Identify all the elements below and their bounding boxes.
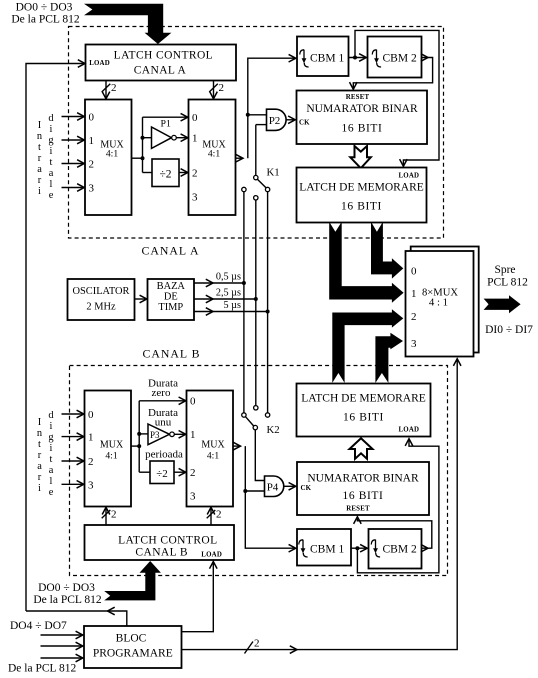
svg-text:r: r <box>38 175 42 186</box>
svg-text:a: a <box>37 164 42 175</box>
svg-text:RESET: RESET <box>346 94 370 101</box>
svg-text:1: 1 <box>89 135 95 147</box>
svg-text:unu: unu <box>155 417 172 429</box>
wire input 1 MUX3 <box>62 436 84 438</box>
wire to P4 bottom input <box>245 490 264 492</box>
svg-text:16 BITI: 16 BITI <box>341 201 382 213</box>
svg-text:CANAL B: CANAL B <box>135 547 188 559</box>
mux MUX4 4:1 (canal B rate select) <box>187 391 234 507</box>
wire input 0 MUX1 <box>62 116 85 118</box>
wire branch to divider A <box>143 172 153 174</box>
svg-text:0: 0 <box>190 396 196 408</box>
svg-text:i: i <box>50 146 53 157</box>
bus arrow 8xMUX output to PCL (thick) <box>484 295 521 313</box>
wire LOAD feed into latch U1 (from bloc programare, far left) <box>26 64 85 612</box>
svg-text:d: d <box>48 410 54 421</box>
wire P4 output to CK (canal B) <box>284 485 296 487</box>
svg-text:÷2: ÷2 <box>159 169 171 181</box>
bus arrow latch A to 8xMUX input 0 (thick) <box>371 222 403 279</box>
svg-text:4:1: 4:1 <box>207 451 219 462</box>
bus arrow latch B to 8xMUX input 3 (thick) <box>375 333 403 383</box>
wire P2 output to CK <box>286 119 295 121</box>
wire select bus latch U2 to MUX4 (2) <box>210 507 212 524</box>
svg-text:a: a <box>37 461 42 472</box>
monostable CBM1 (canal A) <box>297 37 349 77</box>
wire CBM1 B out under to latch B load <box>357 439 439 573</box>
mux 8xMUX 4:1 (output, double box) <box>411 247 479 353</box>
svg-text:CBM 1: CBM 1 <box>310 544 344 556</box>
svg-text:4:1: 4:1 <box>106 149 118 160</box>
svg-text:4:1: 4:1 <box>208 149 220 160</box>
wire branch to divider B <box>139 471 150 473</box>
svg-text:LATCH CONTROL: LATCH CONTROL <box>118 535 217 547</box>
svg-text:i: i <box>38 483 41 494</box>
svg-text:1: 1 <box>88 432 94 444</box>
svg-text:0: 0 <box>89 112 95 124</box>
svg-text:P1: P1 <box>161 119 171 130</box>
wire input 2 MUX3 <box>62 460 84 462</box>
svg-text:OSCILATOR: OSCILATOR <box>73 286 130 297</box>
counter NUMARATOR BINAR 16 BITI (canal B) <box>297 462 429 515</box>
svg-text:t: t <box>38 142 41 153</box>
svg-text:3: 3 <box>89 183 95 195</box>
wire 0,5us output <box>194 282 244 284</box>
svg-text:Spre: Spre <box>494 264 515 276</box>
svg-text:16 BITI: 16 BITI <box>343 412 384 424</box>
wire CBM1 B to CBM2 B <box>351 547 367 549</box>
wire input 3 MUX3 <box>62 483 84 485</box>
wire input 3 MUX1 <box>62 187 85 189</box>
wire input 2 bloc <box>41 645 83 647</box>
block BLOC PROGRAMARE <box>84 626 182 668</box>
wire to P2 top input <box>248 114 267 116</box>
svg-text:BLOC: BLOC <box>116 633 147 645</box>
wire input 1 MUX1 <box>62 139 85 141</box>
monostable CBM2 (canal B) <box>369 529 422 569</box>
svg-text:2: 2 <box>88 456 94 468</box>
block OSCILATOR 2 MHz <box>68 279 135 320</box>
junction MUX1 out <box>141 156 145 160</box>
wire timebase line 1 (K1 left to K2 left) <box>243 192 245 413</box>
junction P4 bottom input tap <box>243 489 247 493</box>
svg-text:NUMARATOR BINAR: NUMARATOR BINAR <box>307 473 419 485</box>
bus arrow latch B to 8xMUX input 2 (thick) <box>332 309 403 383</box>
svg-text:2: 2 <box>192 168 198 180</box>
svg-text:CBM 1: CBM 1 <box>310 53 344 65</box>
svg-text:2: 2 <box>190 467 196 479</box>
svg-text:16 BITI: 16 BITI <box>342 123 383 135</box>
svg-text:MUX: MUX <box>100 440 124 451</box>
svg-text:i: i <box>38 186 41 197</box>
wire input 3 bloc <box>41 657 83 659</box>
svg-text:DO0 ÷ DO3: DO0 ÷ DO3 <box>16 2 73 14</box>
svg-text:CANAL A: CANAL A <box>141 244 199 258</box>
svg-text:De la PCL 812: De la PCL 812 <box>8 663 76 675</box>
svg-text:t: t <box>38 439 41 450</box>
latch LATCH DE MEMORARE 16 BITI (canal A) <box>297 168 427 223</box>
wire MUX2 output up to CBM1 <box>236 157 244 159</box>
svg-text:BAZA: BAZA <box>157 281 186 292</box>
svg-text:2: 2 <box>89 159 95 171</box>
svg-text:DE: DE <box>164 292 178 303</box>
node Intrari digitale (canal A) <box>37 113 55 201</box>
svg-text:De la PCL 812: De la PCL 812 <box>33 594 101 606</box>
svg-text:r: r <box>38 450 42 461</box>
svg-text:e: e <box>49 190 54 201</box>
svg-text:2: 2 <box>254 638 260 650</box>
svg-text:De la PCL 812: De la PCL 812 <box>11 14 79 26</box>
svg-text:2: 2 <box>111 82 117 94</box>
wire oscilator to baza de timp <box>135 298 147 300</box>
wire divider A to MUX2 input 2 <box>179 172 188 174</box>
svg-text:4 : 1: 4 : 1 <box>429 297 448 309</box>
bus bloc to 8xMUX select (2) <box>182 359 458 650</box>
junction P3 branch <box>137 432 141 436</box>
wire branch to MUX2 input 0 <box>143 116 188 118</box>
svg-text:zero: zero <box>152 387 171 399</box>
svg-text:1: 1 <box>411 288 417 300</box>
svg-text:P4: P4 <box>267 482 279 494</box>
wire divider B to MUX4 input 2 <box>174 471 186 473</box>
svg-text:3: 3 <box>190 491 196 503</box>
block arrow counter B to latch B (hollow, up) <box>350 438 373 459</box>
wire bloc to latch U2 load <box>182 562 214 632</box>
wire timebase line 3 (K1 right to K2 right) <box>267 192 269 413</box>
latch U1: LATCH CONTROL CANAL A <box>86 45 237 81</box>
svg-text:2: 2 <box>216 509 222 521</box>
svg-text:i: i <box>50 421 53 432</box>
svg-text:NUMARATOR BINAR: NUMARATOR BINAR <box>306 103 418 115</box>
svg-text:P2: P2 <box>269 115 281 127</box>
wire junction arrow (direction mark, bottom segment) <box>26 611 127 626</box>
wire 2,5us output <box>194 298 256 300</box>
svg-text:16 BITI: 16 BITI <box>343 490 384 502</box>
wire select bus latch U2 to MUX3 (2) <box>105 507 107 524</box>
dashed frame CANAL B <box>70 366 448 576</box>
junction CBM1 B out <box>355 546 359 550</box>
svg-text:l: l <box>50 476 53 487</box>
svg-text:n: n <box>37 131 43 142</box>
buffer P3 (inverter) <box>148 424 170 445</box>
svg-text:PCL 812: PCL 812 <box>487 277 528 289</box>
svg-text:t: t <box>50 157 53 168</box>
mux MUX1 4:1 (canal A input select) <box>85 100 132 216</box>
svg-text:perioada: perioada <box>145 449 183 461</box>
svg-text:MUX: MUX <box>201 440 225 451</box>
svg-text:CK: CK <box>301 485 312 492</box>
svg-text:a: a <box>49 168 54 179</box>
bus arrow DO0-DO3 into LATCH CONTROL CANAL B (thick) <box>104 561 161 600</box>
svg-text:0,5 µs: 0,5 µs <box>216 272 241 283</box>
svg-text:TIMP: TIMP <box>158 302 183 313</box>
svg-text:2 MHz: 2 MHz <box>86 302 116 313</box>
svg-text:r: r <box>38 472 42 483</box>
wire P1 to MUX2 input 1 <box>176 137 188 139</box>
divider B (&#247;2) <box>150 461 174 484</box>
wire MUX3 output to branch node <box>131 445 139 447</box>
junction MUX3 out <box>137 444 141 448</box>
wire select bus latch U1 to MUX2 (2) <box>213 81 215 99</box>
svg-text:CBM 2: CBM 2 <box>383 544 417 556</box>
wire MUX1 output to branch node <box>132 157 143 159</box>
gate P2 (AND) <box>267 109 287 130</box>
svg-text:0: 0 <box>411 266 417 278</box>
svg-text:n: n <box>37 428 43 439</box>
wire CBM1 to CBM2 <box>349 57 367 59</box>
wire MUX4 output down to CBM1 B <box>233 445 241 447</box>
divider A (&#247;2) <box>152 159 179 187</box>
junction P2 top input tap <box>246 113 250 117</box>
svg-text:DO4 ÷ DO7: DO4 ÷ DO7 <box>10 620 67 632</box>
svg-text:t: t <box>50 454 53 465</box>
buffer P1 (inverter) <box>152 127 172 148</box>
svg-text:i: i <box>50 124 53 135</box>
wire input 2 MUX1 <box>62 163 85 165</box>
counter NUMARATOR BINAR 16 BITI (canal A) <box>297 91 428 145</box>
svg-text:DI0 ÷ DI7: DI0 ÷ DI7 <box>485 324 533 336</box>
svg-text:RESET: RESET <box>346 506 370 513</box>
block arrow counter to latch (hollow) <box>350 146 371 168</box>
svg-text:0: 0 <box>88 409 94 421</box>
mux MUX3 4:1 (canal B input select) <box>85 391 132 507</box>
svg-text:g: g <box>48 432 53 443</box>
dashed frame CANAL A <box>69 27 444 239</box>
svg-text:2: 2 <box>111 509 117 521</box>
svg-text:DO0 ÷ DO3: DO0 ÷ DO3 <box>38 582 95 594</box>
svg-text:3: 3 <box>411 338 417 350</box>
latch LATCH DE MEMORARE 16 BITI (canal B) <box>297 384 431 437</box>
bus arrow DO0-DO3 into LATCH CONTROL CANAL A (thick) <box>84 4 171 44</box>
svg-text:CK: CK <box>299 120 310 127</box>
svg-text:LATCH CONTROL: LATCH CONTROL <box>114 49 213 61</box>
bus arrow latch A to 8xMUX input 1 (thick) <box>329 222 403 303</box>
svg-text:4:1: 4:1 <box>105 451 117 462</box>
mux MUX2 4:1 (canal A rate select) <box>189 100 236 216</box>
wire input 0 MUX3 <box>62 413 84 415</box>
svg-text:1: 1 <box>192 133 198 145</box>
svg-text:I: I <box>38 120 42 131</box>
svg-text:2: 2 <box>219 82 225 94</box>
wire CBM1 out over to latch load (canal A) <box>355 30 439 166</box>
wire K1 pole to P2 bottom input <box>256 124 267 126</box>
svg-text:÷2: ÷2 <box>156 468 168 480</box>
svg-text:LOAD: LOAD <box>399 427 420 434</box>
wire CBM2 out to numarator reset (canal A) <box>353 58 432 90</box>
wire 5us output <box>194 311 268 313</box>
svg-text:K1: K1 <box>267 167 280 179</box>
svg-text:2: 2 <box>411 311 417 323</box>
svg-text:l: l <box>50 179 53 190</box>
svg-text:2,5 µs: 2,5 µs <box>216 288 241 299</box>
svg-text:LOAD: LOAD <box>201 552 222 559</box>
wire K2 pole to P4 top input <box>255 430 264 481</box>
wire CBM2 B out to numarator B reset <box>357 517 431 549</box>
svg-text:LATCH DE MEMORARE: LATCH DE MEMORARE <box>299 182 424 194</box>
svg-text:1: 1 <box>190 429 196 441</box>
wire branch vertical (canal A) <box>142 117 144 172</box>
svg-text:LOAD: LOAD <box>89 60 110 67</box>
wire select bus latch U1 to MUX1 (2) <box>105 81 107 99</box>
svg-text:a: a <box>49 465 54 476</box>
wire P3 to MUX4 input 1 <box>174 433 186 435</box>
wire branch to buffer P3 <box>139 433 148 435</box>
svg-text:0: 0 <box>192 112 198 124</box>
wire input 1 bloc <box>41 634 83 636</box>
monostable CBM1 (canal B) <box>297 529 351 566</box>
wire timebase line 2 (K1 mid to K2 mid) <box>255 200 257 405</box>
monostable CBM2 (canal A) <box>368 37 422 78</box>
block BAZA DE TIMP <box>148 279 195 320</box>
svg-text:i: i <box>50 443 53 454</box>
wire branch to buffer P1 <box>143 137 152 139</box>
wire branch to MUX4 input 0 <box>139 400 186 402</box>
svg-text:5 µs: 5 µs <box>224 300 242 311</box>
junction CBM1 out <box>353 56 357 60</box>
svg-text:e: e <box>49 487 54 498</box>
svg-text:CANAL A: CANAL A <box>134 64 187 76</box>
svg-text:CANAL B: CANAL B <box>142 347 200 361</box>
svg-text:3: 3 <box>192 192 198 204</box>
svg-text:d: d <box>48 113 54 124</box>
svg-text:r: r <box>38 153 42 164</box>
junction P1 branch <box>141 136 145 140</box>
node Intrari digitale (canal B) <box>37 410 55 498</box>
latch U2: LATCH CONTROL CANAL B <box>85 525 235 560</box>
svg-text:LOAD: LOAD <box>399 173 420 180</box>
svg-text:3: 3 <box>88 479 94 491</box>
svg-text:K2: K2 <box>267 424 280 436</box>
svg-text:CBM 2: CBM 2 <box>383 53 417 65</box>
svg-text:I: I <box>38 417 42 428</box>
gate P4 (AND) <box>265 476 284 497</box>
svg-text:PROGRAMARE: PROGRAMARE <box>93 648 173 660</box>
svg-text:LATCH DE MEMORARE: LATCH DE MEMORARE <box>301 393 426 405</box>
svg-text:g: g <box>48 135 53 146</box>
svg-text:P3: P3 <box>150 430 160 440</box>
